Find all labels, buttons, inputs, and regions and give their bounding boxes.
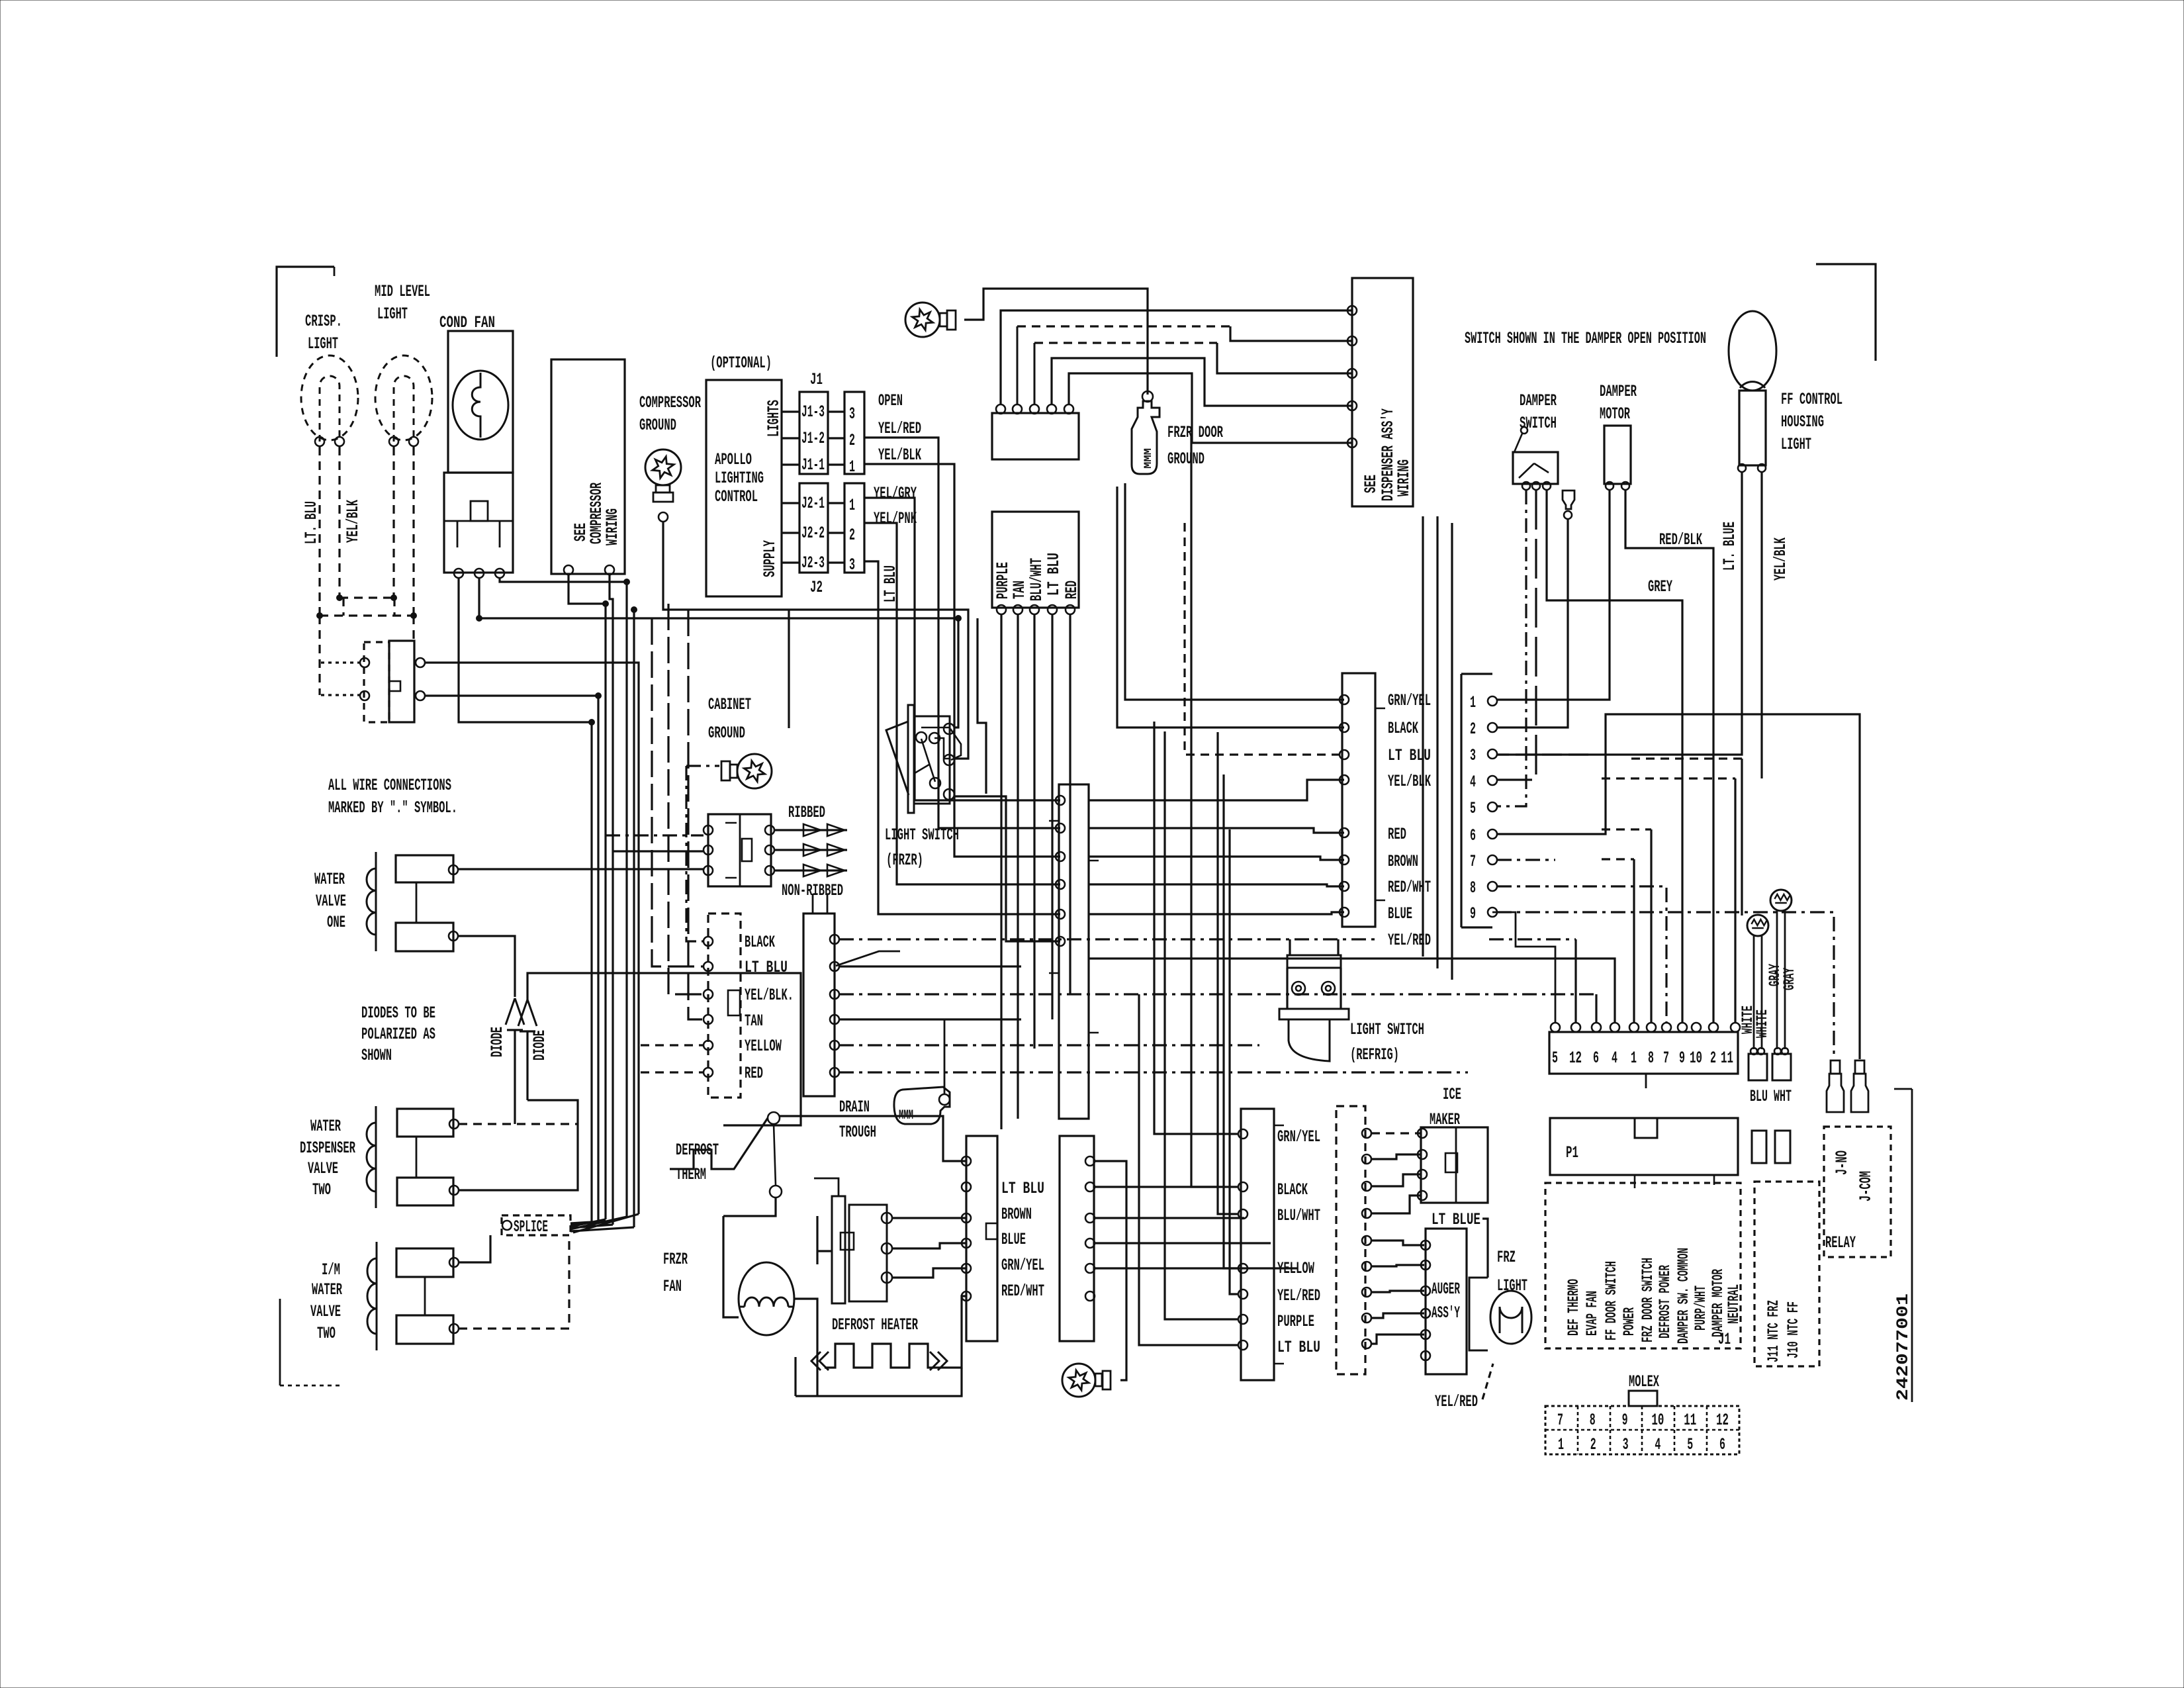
svg-text:J-COM: J-COM: [1856, 1171, 1876, 1201]
wire damper switch pin3 GREY run: [1547, 490, 1682, 1023]
svg-text:FF CONTROL: FF CONTROL: [1781, 390, 1843, 409]
wire compressor ground down and right: [663, 522, 968, 759]
connector block 1-2-3: [844, 483, 864, 573]
svg-text:YEL/BLK: YEL/BLK: [878, 445, 921, 465]
svg-text:TROUGH: TROUGH: [839, 1123, 876, 1142]
svg-text:HOUSING: HOUSING: [1781, 412, 1824, 432]
mid-left connector (black..red): [708, 914, 741, 1098]
svg-text:MOLEX: MOLEX: [1629, 1372, 1659, 1391]
bottom-left corner border bracket: [279, 1299, 281, 1385]
wires with ribbed arrows: [774, 829, 847, 831]
svg-text:3: 3: [1470, 746, 1476, 765]
svg-text:DAMPER MOTOR: DAMPER MOTOR: [1709, 1269, 1727, 1337]
i/m water valve two solenoid: [376, 1242, 378, 1350]
svg-text:RED/WHT: RED/WHT: [1388, 878, 1431, 897]
svg-text:BLUE: BLUE: [1388, 904, 1412, 923]
wire yel/blk from block to central pin3: [864, 464, 1060, 857]
svg-text:DAMPER SW. COMMON: DAMPER SW. COMMON: [1675, 1248, 1692, 1344]
svg-text:LIGHTS: LIGHTS: [764, 400, 784, 437]
mesh dashed runs right side: [1602, 828, 1651, 830]
defrost heater element: [825, 1344, 939, 1368]
ff light body: [1739, 391, 1766, 465]
bottom ground screw: [1062, 1364, 1111, 1397]
wire valve one bottom to diode 1: [458, 936, 515, 997]
wire cond fan t2 to under-apollo vertical: [479, 578, 958, 727]
svg-text:11: 11: [1721, 1049, 1733, 1068]
wires pins 5,12,6 up: [1574, 939, 1576, 1023]
wire diode2 top run right: [527, 973, 801, 1125]
switch crisp/mid light (dashed+solid box): [364, 642, 389, 722]
svg-text:LIGHT SWITCH: LIGHT SWITCH: [1350, 1020, 1424, 1039]
svg-text:SWITCH SHOWN IN THE DAMPER OPE: SWITCH SHOWN IN THE DAMPER OPEN POSITION: [1465, 329, 1706, 348]
wire pin2 top dashed to dispenser pin2: [1017, 326, 1019, 404]
wire junction crisp-right to mid-left (dashed): [340, 596, 394, 598]
wire damper motor right pin RED/BLK down to connector pin10: [1625, 490, 1713, 1023]
svg-text:BLACK: BLACK: [1388, 719, 1418, 738]
junction dots: [477, 616, 482, 622]
svg-text:1: 1: [849, 457, 855, 477]
svg-text:RED: RED: [745, 1064, 763, 1083]
svg-text:(FRZR): (FRZR): [886, 851, 923, 870]
svg-text:J10 NTC FF: J10 NTC FF: [1785, 1301, 1802, 1358]
svg-text:SHOWN: SHOWN: [361, 1046, 392, 1065]
svg-text:242077001: 242077001: [1893, 1293, 1913, 1401]
svg-text:8: 8: [1590, 1411, 1596, 1430]
svg-text:LT BLU: LT BLU: [1001, 1179, 1044, 1198]
svg-text:DIODE: DIODE: [530, 1030, 549, 1060]
svg-text:3: 3: [849, 555, 855, 575]
svg-text:1: 1: [1631, 1049, 1637, 1068]
lower central connector right block: [1060, 1136, 1094, 1341]
svg-text:POLARIZED AS: POLARIZED AS: [361, 1025, 435, 1044]
svg-text:BLACK: BLACK: [745, 933, 775, 952]
wire pin3 top dashed to dispenser pin3: [1034, 343, 1036, 404]
relay box (dashed): [1824, 1127, 1891, 1257]
svg-text:LT BLUE: LT BLUE: [1432, 1210, 1480, 1229]
svg-text:LIGHT SWITCH: LIGHT SWITCH: [885, 825, 959, 845]
cond fan relay box: [444, 473, 513, 573]
svg-text:YEL/RED: YEL/RED: [1435, 1392, 1478, 1411]
svg-text:ALL WIRE CONNECTIONS: ALL WIRE CONNECTIONS: [328, 776, 451, 795]
wire bottom ground to right block pin1: [1095, 1161, 1126, 1380]
svg-text:4: 4: [1470, 773, 1476, 792]
wire lt blue leader to frz light: [1482, 1219, 1488, 1278]
svg-text:P1: P1: [1566, 1143, 1578, 1162]
svg-text:3: 3: [849, 404, 855, 424]
svg-text:GRN/YEL: GRN/YEL: [1001, 1256, 1044, 1275]
svg-text:LIGHT: LIGHT: [1781, 435, 1811, 454]
svg-text:RED: RED: [1388, 825, 1406, 844]
svg-text:CONTROL: CONTROL: [715, 487, 758, 506]
wire damper motor left pin to numbered pin 1: [1497, 490, 1610, 700]
svg-text:CRISP.: CRISP.: [305, 312, 342, 331]
svg-text:J2: J2: [810, 578, 823, 597]
frz light bulb: [1469, 1278, 1488, 1350]
svg-text:GRAY: GRAY: [1781, 968, 1798, 990]
svg-text:WIRING: WIRING: [1394, 459, 1414, 496]
svg-text:APOLLO: APOLLO: [715, 450, 752, 469]
frzr fan wires: [723, 1216, 739, 1317]
wire crisp-light right lead (dashed): [338, 447, 340, 598]
wire mid-light left lead (dashed): [392, 447, 394, 598]
svg-text:COMPRESSOR: COMPRESSOR: [639, 393, 701, 412]
svg-text:9: 9: [1470, 904, 1476, 923]
wire yel/gry to central pin1: [864, 498, 1060, 800]
damper motor box: [1604, 426, 1631, 484]
svg-text:ICE: ICE: [1443, 1085, 1461, 1104]
drain trough connector: [803, 914, 835, 1096]
svg-text:5: 5: [1552, 1049, 1558, 1068]
wire yel/red from block to central pin2: [864, 438, 1060, 828]
svg-text:DAMPER: DAMPER: [1520, 391, 1557, 410]
svg-text:PURP/WHT: PURP/WHT: [1692, 1286, 1709, 1331]
svg-text:FRZR DOOR: FRZR DOOR: [1167, 423, 1223, 442]
svg-text:2: 2: [849, 431, 855, 450]
svg-text:8: 8: [1648, 1049, 1654, 1068]
svg-text:YEL/RED: YEL/RED: [1277, 1286, 1320, 1305]
splice fan-out wires: [570, 1214, 639, 1233]
cond fan terminals: [454, 569, 463, 578]
svg-text:MMM: MMM: [1142, 448, 1154, 469]
svg-text:LIGHT: LIGHT: [377, 305, 408, 324]
svg-text:WIRING: WIRING: [603, 508, 622, 545]
wire i/m valve bottom to splice: [459, 1237, 569, 1329]
svg-text:1: 1: [1470, 693, 1476, 712]
svg-text:J1: J1: [1718, 1330, 1731, 1349]
svg-text:GRN/YEL: GRN/YEL: [1277, 1127, 1320, 1147]
wire yel/blk dashed run to pin 11: [1602, 777, 1735, 779]
svg-text:YEL/PNK: YEL/PNK: [874, 509, 917, 528]
svg-text:EVAP FAN: EVAP FAN: [1584, 1291, 1601, 1336]
defrost therm bimetal symbol: [670, 1118, 768, 1169]
svg-text:WATER: WATER: [312, 1280, 342, 1299]
svg-text:DIODES TO BE: DIODES TO BE: [361, 1004, 435, 1023]
svg-text:SEE: SEE: [1361, 475, 1381, 493]
svg-text:BLUE: BLUE: [1001, 1230, 1026, 1249]
water valve one solenoid: [375, 852, 377, 951]
svg-text:FRZ: FRZ: [1497, 1248, 1516, 1267]
svg-text:J2-1: J2-1: [801, 494, 825, 513]
svg-text:6: 6: [1470, 826, 1476, 845]
svg-text:LT BLU: LT BLU: [1277, 1338, 1320, 1357]
svg-text:BROWN: BROWN: [1388, 852, 1418, 871]
svg-text:BLU/WHT: BLU/WHT: [1277, 1206, 1320, 1225]
wires R2 to auger assy: [1371, 1241, 1424, 1245]
svg-text:2: 2: [1470, 720, 1476, 739]
svg-text:LIGHTING: LIGHTING: [715, 469, 764, 488]
svg-text:YEL/BLK.: YEL/BLK.: [745, 986, 794, 1005]
central mesh long verticals: [1139, 994, 1239, 1345]
wire light net2 down to switch (dashed): [412, 616, 414, 641]
svg-text:VALVE: VALVE: [310, 1302, 341, 1321]
diode 1: [506, 998, 524, 1025]
wires central connector to right connector pins: [1089, 780, 1344, 800]
ff control housing light bulb: [1729, 311, 1776, 391]
wire plug stub down to numbered pin 2: [1497, 519, 1568, 727]
wire yel/pnk to central pin4: [864, 523, 1060, 884]
svg-text:YELLOW: YELLOW: [745, 1037, 782, 1056]
svg-text:LT. BLU: LT. BLU: [302, 501, 321, 544]
box P1: [1550, 1118, 1738, 1175]
right tall connector R1 (grn/yel..lt blu): [1241, 1109, 1274, 1380]
svg-text:FRZR: FRZR: [663, 1250, 688, 1269]
svg-text:SPLICE: SPLICE: [514, 1217, 548, 1237]
svg-text:9: 9: [1622, 1411, 1628, 1430]
wire pin4 top to dispenser pin4: [1052, 358, 1352, 406]
svg-text:YEL/BLK: YEL/BLK: [1388, 772, 1431, 791]
top-right corner border bracket: [1816, 264, 1876, 361]
svg-text:TAN: TAN: [745, 1011, 763, 1031]
right border line: [1894, 1089, 1912, 1402]
svg-text:LIGHT: LIGHT: [308, 334, 338, 353]
svg-text:RELAY: RELAY: [1825, 1233, 1856, 1252]
svg-text:7: 7: [1470, 852, 1476, 871]
drain trough moisture symbol: [894, 1087, 950, 1124]
wire pin5 top to dispenser pin5: [1069, 373, 1352, 443]
branch from compressor bus down to drain connector top: [788, 610, 790, 728]
box SEE DISPENSER ASS'Y WIRING: [1352, 278, 1413, 506]
wire i/m valve top to splice: [459, 1235, 490, 1262]
wire from switch frzr to central pin6: [954, 796, 1060, 941]
svg-text:VALVE: VALVE: [308, 1159, 338, 1178]
svg-text:TAN: TAN: [1010, 581, 1029, 599]
svg-text:J2-3: J2-3: [801, 553, 825, 573]
svg-text:MID LEVEL: MID LEVEL: [375, 282, 430, 301]
connector block purple/tan (lower): [992, 512, 1079, 608]
lamp mid level light (dashed bulb): [375, 355, 432, 440]
water dispenser valve two solenoid: [375, 1106, 377, 1208]
svg-text:GREY: GREY: [1648, 577, 1672, 596]
central-right long verticals: [1422, 516, 1424, 957]
svg-text:ONE: ONE: [327, 913, 345, 932]
cabinet ground screw: [721, 754, 772, 788]
stub wires into mid-left connector: [652, 618, 704, 966]
svg-text:DIODE: DIODE: [488, 1027, 507, 1057]
wire ff light YEL/BLK down: [1760, 471, 1762, 778]
ice maker box: [1421, 1127, 1488, 1203]
svg-text:6: 6: [1593, 1049, 1599, 1068]
heater return wire: [939, 1296, 966, 1368]
wires apollo to J1/J2: [782, 412, 799, 563]
svg-text:DRAIN: DRAIN: [839, 1098, 870, 1117]
svg-text:12: 12: [1716, 1411, 1729, 1430]
svg-text:(OPTIONAL): (OPTIONAL): [710, 353, 772, 373]
box APOLLO LIGHTING CONTROL: [706, 380, 782, 596]
ground screw top middle (freezer ground): [905, 303, 956, 337]
svg-text:FAN: FAN: [663, 1277, 682, 1296]
svg-text:6: 6: [1719, 1435, 1725, 1454]
connector J1: [799, 392, 828, 474]
wire crisp-light left lead LT. BLU (dashed): [318, 447, 320, 616]
thermistor GRAY: [1770, 890, 1792, 911]
wire screw to top run and down to frzr door ground: [964, 289, 1148, 395]
svg-text:10: 10: [1651, 1411, 1664, 1430]
svg-text:YEL/BLK: YEL/BLK: [1771, 538, 1790, 581]
svg-text:RED: RED: [1062, 581, 1081, 599]
damper switch plug stub: [1563, 491, 1574, 509]
svg-text:BROWN: BROWN: [1001, 1205, 1032, 1224]
connector J11/J10 NTC (dashed): [1754, 1182, 1819, 1366]
wire therm bottom to frzr fan: [723, 1197, 776, 1216]
wire valve one top to plug pin3: [458, 868, 704, 870]
svg-text:5: 5: [1470, 799, 1476, 818]
compressor box terminals: [564, 565, 573, 575]
svg-text:10: 10: [1690, 1049, 1702, 1068]
wire crisp-left net down to switch (dashed): [318, 616, 320, 695]
frzr fan motor: [739, 1262, 794, 1335]
wire ff light LT. BLUE down: [1497, 471, 1742, 755]
svg-text:CABINET: CABINET: [708, 695, 751, 714]
svg-text:2: 2: [849, 526, 855, 545]
svg-text:8: 8: [1470, 878, 1476, 898]
svg-text:LT. BLUE: LT. BLUE: [1720, 522, 1739, 571]
svg-text:PURPLE: PURPLE: [1277, 1312, 1314, 1331]
numbered connector 1-9: [1461, 674, 1492, 927]
connector block purple/tan (upper): [992, 413, 1079, 459]
svg-text:MARKED BY "." SYMBOL.: MARKED BY "." SYMBOL.: [328, 798, 457, 818]
svg-text:SUPPLY: SUPPLY: [760, 540, 780, 577]
svg-text:11: 11: [1684, 1411, 1696, 1430]
wire valve two bottom via diode2: [459, 1100, 578, 1190]
wire cond fan t3 bus: [500, 578, 627, 1217]
light switch FRZR symbol: [908, 705, 914, 813]
svg-text:1: 1: [849, 496, 855, 515]
svg-text:7: 7: [1663, 1049, 1669, 1068]
svg-text:J1-2: J1-2: [801, 429, 825, 448]
feed wires into plug from left: [606, 834, 704, 836]
svg-text:POWER: POWER: [1621, 1307, 1638, 1336]
wire numbered pin9 jog: [1492, 912, 1555, 1023]
svg-text:AUGER: AUGER: [1432, 1280, 1460, 1299]
svg-text:12: 12: [1569, 1049, 1582, 1068]
light switch REFRIG: [1287, 955, 1341, 968]
svg-text:YEL/GRY: YEL/GRY: [874, 484, 917, 503]
svg-text:WATER: WATER: [310, 1117, 341, 1136]
wires from numbered pins to right: [1497, 714, 1860, 1059]
connector block 3-2-1: [844, 392, 864, 474]
splice box: [502, 1215, 570, 1235]
svg-text:4: 4: [1655, 1435, 1661, 1454]
svg-text:3: 3: [1623, 1435, 1629, 1454]
cond fan motor enclosure: [448, 331, 513, 473]
svg-text:NEUTRAL: NEUTRAL: [1725, 1284, 1743, 1324]
wires J1 to block: [828, 412, 844, 563]
power cord plug RIBBED/NON-RIBBED: [708, 814, 771, 886]
svg-text:GROUND: GROUND: [639, 416, 676, 435]
lamp crisp light (dashed bulb): [301, 355, 358, 440]
svg-text:GROUND: GROUND: [1167, 449, 1205, 469]
svg-text:YEL/BLK: YEL/BLK: [343, 500, 363, 543]
wire cond fan t1 down: [459, 578, 592, 1222]
svg-text:LT BLU: LT BLU: [1044, 553, 1064, 596]
wire switch lead B to splice: [425, 696, 598, 1222]
svg-text:WHITE: WHITE: [1754, 1009, 1771, 1038]
wire junction crisp-left to mid-right (dashed): [320, 614, 414, 616]
right tall connector R2 (dash): [1336, 1106, 1365, 1374]
dispenser box pins: [1347, 306, 1357, 315]
wire therm top to lower connector pin1: [780, 1116, 966, 1161]
svg-text:2: 2: [1590, 1435, 1596, 1454]
wires light switch refrig up: [1290, 939, 1338, 955]
lower central connector left block: [966, 1136, 997, 1341]
connector J1 relay board (dashed): [1545, 1183, 1741, 1348]
damper switch: [1513, 452, 1558, 484]
stub verticals to left connector upper pins: [1125, 483, 1344, 700]
wire valve two top dashed: [459, 1123, 578, 1125]
svg-text:J-NO: J-NO: [1833, 1150, 1852, 1175]
svg-text:2: 2: [1710, 1049, 1716, 1068]
crimp terminal 1 (to J-NO): [1831, 1060, 1840, 1074]
wire pin1 top to dispenser pin1: [1001, 310, 1352, 404]
wire mid-light right lead (dashed): [412, 447, 414, 614]
central connector upper: [1059, 784, 1089, 1119]
svg-text:5: 5: [1687, 1435, 1693, 1454]
svg-text:BLU WHT: BLU WHT: [1750, 1087, 1792, 1106]
connector 5-12-6-4-1-8-7-9-10-2-11: [1549, 1032, 1738, 1074]
svg-text:VALVE: VALVE: [316, 892, 346, 911]
svg-text:4: 4: [1612, 1049, 1617, 1068]
svg-text:GRN/YEL: GRN/YEL: [1388, 691, 1431, 710]
svg-text:OPEN: OPEN: [878, 391, 903, 410]
svg-text:LT BLU: LT BLU: [1388, 746, 1431, 765]
auger assy box: [1426, 1229, 1467, 1374]
svg-text:GROUND: GROUND: [708, 724, 745, 743]
svg-text:MOTOR: MOTOR: [1600, 404, 1630, 424]
left connector of pair (grn/yel..blue): [1342, 673, 1375, 927]
frzr door ground symbol: [1132, 401, 1160, 474]
svg-text:RED/BLK: RED/BLK: [1659, 530, 1702, 549]
wire damper switch pin2 down to numbered pin 4: [1497, 490, 1536, 780]
svg-text:BLU/WHT: BLU/WHT: [1027, 558, 1046, 601]
wire lt blu to central pin5: [864, 561, 1060, 914]
svg-text:(REFRIG): (REFRIG): [1350, 1045, 1399, 1064]
svg-text:I/M: I/M: [322, 1260, 340, 1280]
cond fan motor: [453, 371, 508, 440]
molex connector table: [1629, 1391, 1657, 1406]
thermistor WHITE: [1747, 915, 1768, 936]
svg-text:DEFROST HEATER: DEFROST HEATER: [832, 1315, 918, 1335]
compressor ground screw: [645, 449, 681, 502]
wire compressor t1 down-left bus: [569, 575, 606, 1219]
wires R2 to ice maker: [1371, 1132, 1421, 1134]
svg-text:7: 7: [1557, 1411, 1563, 1430]
svg-text:TWO: TWO: [312, 1180, 331, 1199]
svg-text:DEF THERMO: DEF THERMO: [1565, 1279, 1582, 1336]
svg-text:THERM: THERM: [676, 1165, 706, 1184]
mesh horizontal wires from drain connector: [839, 938, 1380, 940]
svg-text:YEL/RED: YEL/RED: [1388, 931, 1431, 950]
crimp terminal 2 (to J-COM): [1855, 1060, 1864, 1074]
connector J2: [799, 483, 828, 573]
wire damper switch pin1 down to numbered pin 5: [1497, 490, 1526, 806]
svg-text:DAMPER: DAMPER: [1600, 382, 1637, 401]
svg-text:FRZ DOOR SWITCH: FRZ DOOR SWITCH: [1639, 1258, 1657, 1342]
wire compressor t2 bus: [610, 575, 613, 1225]
svg-text:BLACK: BLACK: [1277, 1180, 1308, 1199]
svg-text:WATER: WATER: [314, 870, 345, 889]
wires thermostat to lower connector: [892, 1217, 966, 1219]
svg-text:J2-2: J2-2: [801, 524, 825, 543]
svg-text:9: 9: [1679, 1049, 1685, 1068]
wire light net down to switch (dashed): [393, 598, 395, 616]
svg-text:J1-1: J1-1: [801, 455, 825, 475]
top-left corner border bracket: [277, 267, 334, 357]
diode 2: [518, 1000, 537, 1026]
svg-text:J1: J1: [810, 370, 823, 389]
svg-text:J11 NTC FRZ: J11 NTC FRZ: [1765, 1300, 1782, 1362]
wires from right block into mesh: [1095, 1186, 1218, 1188]
svg-text:J1-3: J1-3: [801, 402, 825, 422]
